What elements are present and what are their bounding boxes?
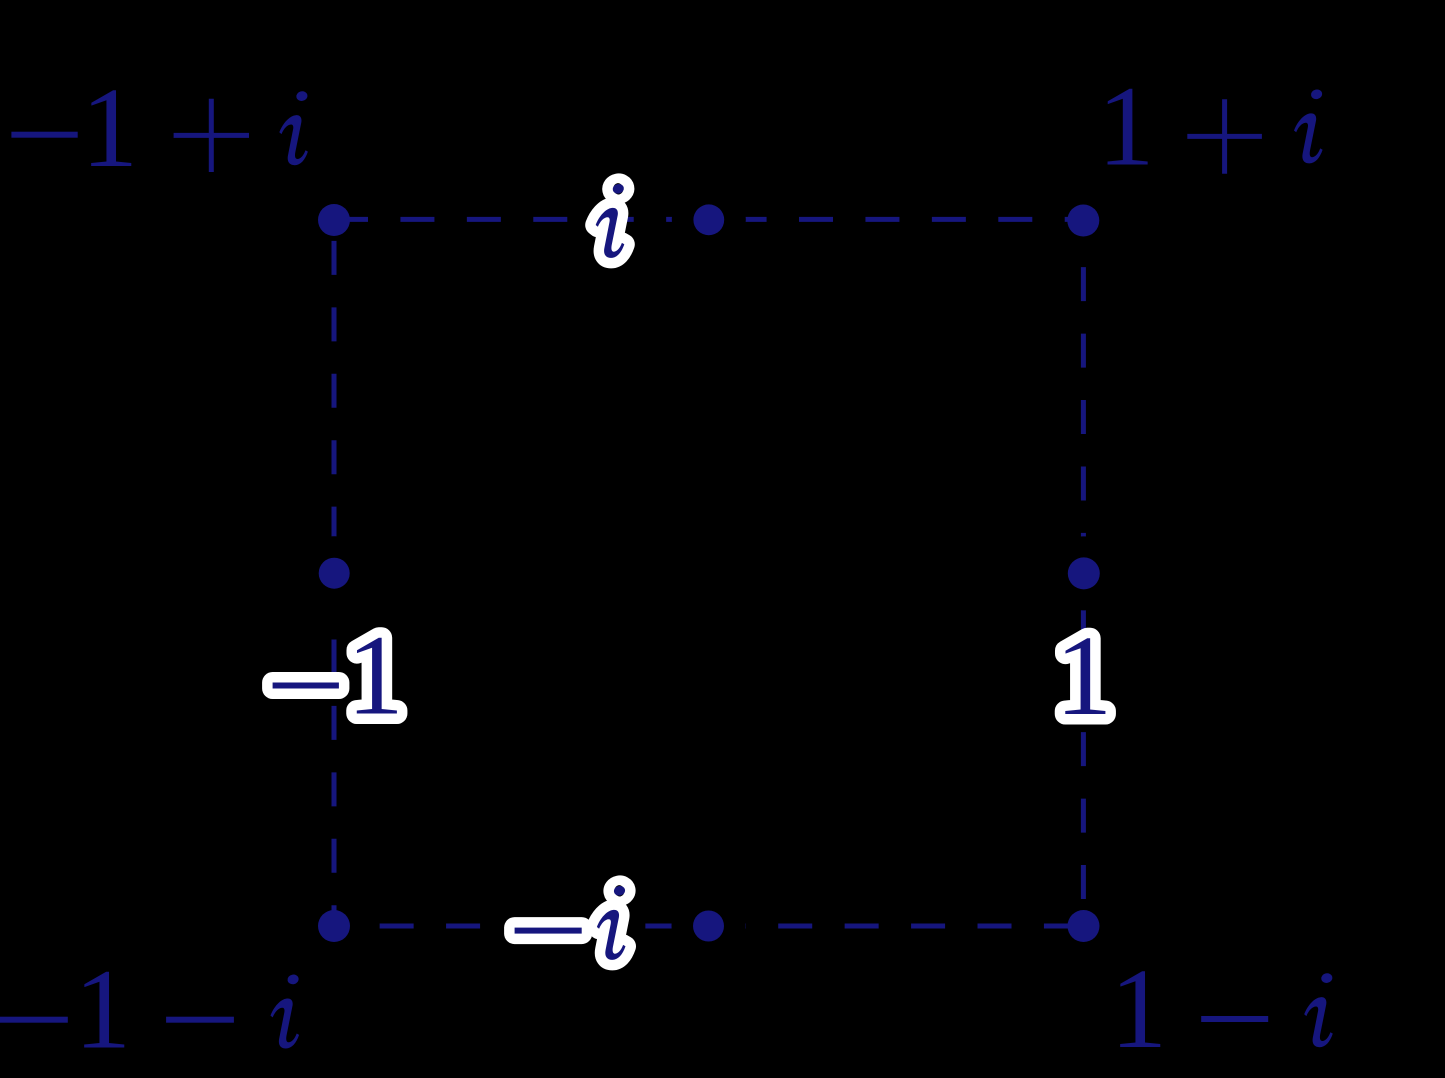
svg-text:1: 1: [1110, 945, 1167, 1072]
svg-text:1: 1: [1055, 612, 1112, 739]
dashed square: [334, 219, 1083, 926]
label -i (bottom middle, halo): [515, 885, 626, 960]
label 1+i (top-right corner): [1098, 63, 1324, 190]
svg-text:1: 1: [1098, 63, 1155, 190]
svg-text:1: 1: [81, 64, 138, 191]
label 1-i (bottom-right corner): [1110, 945, 1333, 1072]
label -1+i (top-left corner): [11, 64, 308, 191]
masks around midpoint dots: [297, 182, 1120, 963]
label -1 (left middle, halo): [273, 612, 404, 739]
label i (top middle, halo): [596, 183, 625, 258]
svg-text:1: 1: [74, 946, 131, 1073]
svg-text:1: 1: [347, 612, 404, 739]
label -1-i (bottom-left corner): [0, 946, 300, 1073]
